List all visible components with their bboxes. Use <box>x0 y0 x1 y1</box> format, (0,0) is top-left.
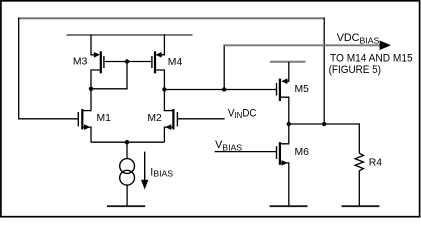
svg-text:VINDC: VINDC <box>228 107 257 120</box>
transistor M1 (NMOS) <box>78 89 91 142</box>
arrow IBIAS <box>144 152 146 182</box>
resistor R4 <box>355 123 363 206</box>
transistor M5 (PMOS) <box>277 62 289 124</box>
node: gate bus junction <box>125 59 129 63</box>
power rail VDD (M3/M4) <box>67 34 193 36</box>
wire: M2 gate lead <box>177 118 224 120</box>
wire: feedback top horizontal (output node to left side) <box>19 17 325 19</box>
wire: M3-M4 gate bus <box>104 61 152 63</box>
node: tail junction <box>125 140 129 144</box>
wire: tail to current source <box>126 142 128 159</box>
svg-text:IBIAS: IBIAS <box>150 166 173 178</box>
svg-text:M3: M3 <box>73 57 88 68</box>
power rail VDD (M5) <box>270 61 306 63</box>
node: feedback tap on output <box>322 122 326 126</box>
wire: diode connection (gate bus to M3 drain) <box>91 62 127 89</box>
svg-text:M1: M1 <box>97 113 112 124</box>
svg-text:M5: M5 <box>295 84 310 95</box>
ground (M6) <box>270 205 308 207</box>
node: output junction (M5/M6 drains) <box>287 122 291 126</box>
wire: current source to ground <box>126 185 128 206</box>
wire: feedback left vertical <box>18 17 20 118</box>
arrowhead VDCBIAS <box>380 41 391 51</box>
wire: tail node horizontal <box>91 141 164 143</box>
wire: VDC tap vertical <box>223 45 225 90</box>
wire: output node to R4 <box>289 123 360 125</box>
wire: VDCBIAS output line <box>224 44 383 46</box>
transistor M3 (PMOS) <box>91 35 104 89</box>
node: M4/M2 drain junction <box>162 87 166 91</box>
node: VDC tap junction <box>222 87 226 91</box>
svg-text:M2: M2 <box>147 113 162 124</box>
transistor M4 (PMOS) <box>152 35 165 90</box>
current source IBIAS <box>120 159 135 186</box>
node: M3 drain junction <box>89 87 93 91</box>
wire: second stage input (M4/M2 drain to M5 gate) <box>164 89 276 91</box>
wire: feedback right vertical (to output node) <box>323 17 325 124</box>
svg-text:TO M14 AND M15: TO M14 AND M15 <box>330 52 413 64</box>
svg-text:R4: R4 <box>369 158 383 169</box>
transistor M2 (NMOS) <box>164 90 177 143</box>
transistor M6 (NMOS) <box>277 124 289 206</box>
svg-text:(FIGURE 5): (FIGURE 5) <box>329 64 381 76</box>
svg-text:M4: M4 <box>168 57 183 68</box>
svg-text:M6: M6 <box>295 147 310 158</box>
ground (tail) <box>107 205 145 207</box>
wire: VBIAS lead to M6 gate <box>215 151 277 153</box>
wire: M1 gate lead <box>18 118 78 120</box>
ground (R4) <box>342 205 380 207</box>
